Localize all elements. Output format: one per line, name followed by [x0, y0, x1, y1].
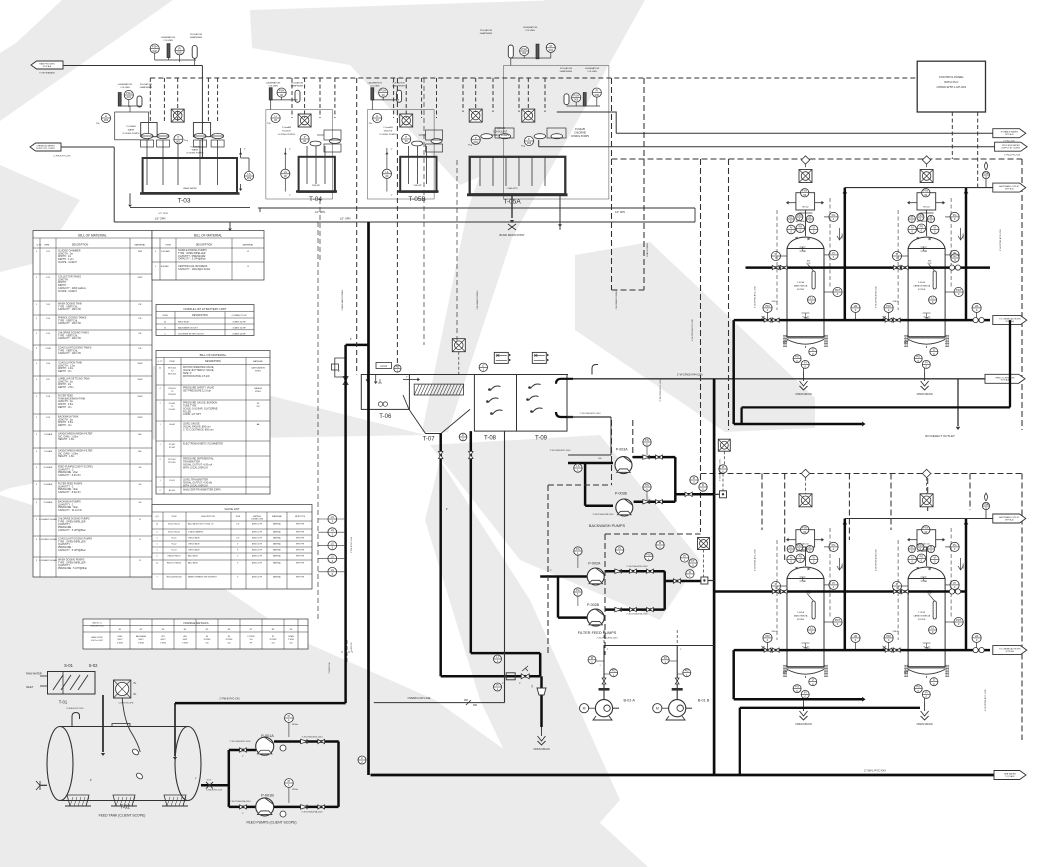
svg-text:MOTOR RATING 0.5 kW: MOTOR RATING 0.5 kW	[183, 375, 210, 378]
svg-text:T-08: T-08	[484, 435, 497, 441]
svg-text:20"WSS: 20"WSS	[226, 639, 234, 641]
svg-text:P-002A/B: P-002A/B	[44, 483, 53, 486]
svg-text:3/4": 3/4"	[532, 684, 534, 688]
support hatching T-011A	[783, 670, 788, 673]
svg-text:LS: LS	[247, 172, 250, 176]
svg-text:S-02: S-02	[89, 663, 99, 668]
svg-text:NOZZLE: NOZZLE	[384, 131, 393, 133]
agitator motor square T-04	[298, 114, 311, 127]
svg-text:WGV-008 WGV-008: WGV-008 WGV-008	[166, 577, 181, 579]
svg-text:MS: MS	[138, 451, 142, 453]
dashed sides T-011A	[776, 540, 778, 640]
svg-text:PG: PG	[795, 685, 799, 689]
svg-text:DOSING PUMPS: DOSING PUMPS	[571, 136, 589, 138]
svg-text:HS: HS	[975, 304, 979, 308]
svg-text:20"WSS: 20"WSS	[270, 639, 278, 641]
svg-text:PI: PI	[930, 545, 933, 549]
svg-text:RAW WATER: RAW WATER	[26, 672, 42, 676]
svg-text:MS: MS	[138, 434, 142, 436]
svg-text:2"-SW-E-PVC-XXX: 2"-SW-E-PVC-XXX	[206, 790, 223, 792]
svg-text:PDT: PDT	[835, 618, 841, 622]
svg-text:VI: VI	[933, 226, 936, 230]
svg-text:FEED PUMPS (CLIENT SCOPE): FEED PUMPS (CLIENT SCOPE)	[246, 821, 296, 825]
flag: to chlorine filter outlet (top)	[993, 316, 1027, 325]
svg-text:T-010A/B: T-010A/B	[44, 433, 53, 436]
svg-text:PG: PG	[576, 588, 580, 592]
valve pair far right top header	[949, 265, 954, 270]
diamond node above T-010B	[922, 156, 930, 164]
pipe: backwash return vertical	[732, 320, 735, 424]
svg-text:3": 3"	[550, 570, 552, 572]
svg-text:PI: PI	[809, 215, 812, 219]
vessel T-010A underdrain instruments	[809, 348, 817, 356]
svg-text:3"WSS: 3"WSS	[138, 642, 145, 644]
tank T-04 dip tubes	[306, 146, 308, 157]
drain arrow T-011A	[837, 558, 842, 570]
svg-text:LS: LS	[284, 170, 287, 174]
svg-text:MATERIAL: MATERIAL	[253, 360, 264, 363]
wire: 1/2 inch open drain header	[114, 221, 560, 223]
tank T-05B left nozzle	[382, 169, 391, 178]
svg-text:ANSI 150 RF: ANSI 150 RF	[252, 555, 262, 558]
svg-text:MV-02: MV-02	[802, 207, 809, 209]
svg-text:001: 001	[176, 139, 181, 143]
tank T-05B	[400, 157, 436, 192]
manifold side nozzles T-010B	[909, 202, 917, 204]
valve on T-06 inlet	[343, 377, 348, 385]
blower air header	[604, 645, 714, 647]
svg-text:1: 1	[156, 550, 157, 552]
dashed sides T-010A	[776, 210, 778, 310]
svg-text:150: 150	[250, 639, 253, 641]
svg-text:BV-01 to BV-05: BV-01 to BV-05	[168, 531, 180, 534]
svg-text:BALL VALVE: BALL VALVE	[188, 555, 199, 558]
svg-text:1": 1"	[289, 195, 291, 197]
pulsation dampener boxes T-05B	[426, 130, 443, 140]
pump P-003B	[616, 499, 633, 516]
svg-text:AT-001: AT-001	[169, 489, 175, 492]
svg-text:WSP: WSP	[138, 379, 144, 381]
svg-text:B-01A/B: B-01A/B	[161, 265, 169, 268]
pipe: T-07 drain run	[439, 434, 442, 677]
svg-text:2"-PW-E-PVC-XXX: 2"-PW-E-PVC-XXX	[219, 697, 240, 700]
svg-text:2"-W-CP000-B736-150U: 2"-W-CP000-B736-150U	[1000, 228, 1002, 250]
svg-text:COLUMN: COLUMN	[587, 71, 597, 73]
svg-text:2"-W-CP000-B731-150U: 2"-W-CP000-B731-150U	[230, 741, 251, 743]
vessel T-011B underdrain instruments	[930, 678, 938, 686]
svg-text:DEPTH : 2m: DEPTH : 2m	[58, 370, 71, 373]
svg-text:DRAIN: DRAIN	[962, 233, 965, 239]
svg-text:1: 1	[156, 538, 157, 540]
svg-text:PI: PI	[930, 215, 933, 219]
svg-text:LI: LI	[496, 655, 498, 659]
svg-text:SUPPLY BY CLIENT: SUPPLY BY CLIENT	[1001, 148, 1021, 150]
vessel T-010B dome instruments	[908, 215, 915, 223]
svg-text:ANALYZER TRANSMITTER (ORP): ANALYZER TRANSMITTER (ORP)	[183, 489, 221, 492]
table: nozzle list at battery limit	[156, 305, 254, 336]
svg-text:ZI: ZI	[722, 465, 725, 469]
svg-text:LS: LS	[331, 568, 334, 572]
svg-text:ELECTROMAGNETIC FLOWMETER: ELECTROMAGNETIC FLOWMETER	[183, 443, 223, 446]
svg-text:3"-W-CP000-B737-150U: 3"-W-CP000-B737-150U	[550, 450, 571, 452]
svg-text:HS: HS	[854, 304, 858, 308]
svg-text:COLUMN: COLUMN	[268, 86, 278, 88]
signal boundary: backwash/ff pump dashed area	[547, 485, 549, 655]
manifold to dome pipe T-010A	[805, 210, 807, 236]
svg-text:COLUMN: COLUMN	[525, 30, 535, 32]
svg-text:PSE: PSE	[983, 502, 988, 506]
svg-text:LS: LS	[331, 528, 334, 532]
wire: dosing drain header	[258, 207, 695, 209]
open drain below T-011B	[924, 698, 926, 702]
svg-text:2"-W-CP000-B731-150U: 2"-W-CP000-B731-150U	[755, 285, 757, 307]
level switch box	[114, 680, 131, 698]
support hatching T-011B	[904, 670, 909, 673]
svg-text:ITEM: ITEM	[165, 245, 170, 247]
svg-text:PSV: PSV	[802, 189, 807, 193]
svg-text:CAPACITY : 100 LTR: CAPACITY : 100 LTR	[58, 352, 81, 355]
pipe: main filter feed riser	[713, 379, 716, 775]
svg-text:OPEN DRAIN: OPEN DRAIN	[795, 722, 811, 726]
svg-text:CAPACITY : 100m3@0.3mbar: CAPACITY : 100m3@0.3mbar	[178, 268, 210, 271]
instrument boxes above T-08/T-09	[494, 352, 508, 363]
svg-text:HEIGHT : 1.8m: HEIGHT : 1.8m	[58, 455, 74, 458]
svg-text:005: 005	[527, 141, 532, 145]
diamond node above T-010A	[801, 156, 809, 164]
svg-text:2"-W-CP000-B73B-150U: 2"-W-CP000-B73B-150U	[876, 548, 878, 571]
svg-text:MV-02: MV-02	[923, 207, 930, 209]
flag: potable water	[993, 129, 1026, 138]
svg-text:VSB-02: VSB-02	[892, 301, 898, 303]
manifold side nozzles T-011A	[788, 539, 796, 541]
svg-text:PULSATION: PULSATION	[291, 82, 304, 85]
drain arrow T-011B	[958, 558, 963, 570]
pump boxes T-03	[141, 123, 157, 137]
instrument bubble T-05B level	[373, 113, 382, 122]
signal boundary: dashed verticals filter group	[700, 159, 702, 532]
svg-text:PG: PG	[953, 543, 957, 547]
svg-text:ANSI 150 RF: ANSI 150 RF	[252, 537, 262, 540]
svg-text:2"-W-CP000-B730-150U: 2"-W-CP000-B730-150U	[627, 566, 648, 568]
signal dashed drop to blowers	[603, 630, 605, 646]
motor operated valve MOV T-010B	[920, 170, 933, 183]
svg-text:CHECK VALVE: CHECK VALVE	[188, 543, 200, 546]
signal boundary near T-06	[643, 160, 645, 290]
svg-text:150: 150	[290, 642, 293, 644]
svg-text:AI: AI	[911, 226, 914, 230]
T-08 candle internals	[490, 386, 500, 391]
svg-text:MFR/TYPE: MFR/TYPE	[296, 544, 304, 546]
svg-text:PG-001: PG-001	[169, 403, 176, 405]
svg-text:B-01 B: B-01 B	[698, 698, 710, 702]
svg-text:2"-SW-L-PVC-XXX: 2"-SW-L-PVC-XXX	[864, 769, 886, 773]
motor squares above T-08	[452, 339, 465, 352]
instrument bubbles ff	[574, 547, 582, 555]
svg-text:CLIENT ON: CLIENT ON	[329, 662, 331, 673]
svg-text:PSV: PSV	[918, 213, 923, 217]
svg-text:Plug: Plug	[468, 145, 472, 147]
svg-text:SCOPE : CLIENT: SCOPE : CLIENT	[58, 261, 77, 264]
svg-text:PSH: PSH	[279, 89, 284, 93]
svg-text:MOV-001: MOV-001	[168, 368, 176, 370]
table: bill of material (left)	[33, 231, 152, 578]
svg-text:OPEN DRAIN: OPEN DRAIN	[917, 392, 933, 396]
valve manifold T-011A	[796, 530, 815, 547]
tank outlet nozzle left	[40, 784, 47, 786]
vessel T-010B internals	[933, 271, 936, 289]
tank T-03 right nozzle fittings	[244, 171, 253, 180]
tank T-03 dip tubes	[146, 140, 148, 158]
pipe: top group feed header	[746, 266, 991, 269]
svg-text:1": 1"	[391, 195, 393, 197]
junction box ff	[701, 577, 708, 584]
svg-text:LI: LI	[376, 114, 378, 118]
wire: vertical from header to T-06 area	[559, 222, 561, 230]
svg-text:NC-02: NC-02	[172, 544, 177, 546]
svg-text:TO PLANT: TO PLANT	[1005, 775, 1016, 778]
svg-text:CARBON MEDIA: CARBON MEDIA	[913, 285, 930, 288]
svg-text:AU-01: AU-01	[380, 365, 387, 368]
pipe: T-06 inlet crossover	[346, 344, 369, 347]
svg-text:PSH: PSH	[574, 94, 579, 98]
svg-text:PI: PI	[911, 215, 914, 219]
svg-text:LI: LI	[361, 756, 363, 760]
svg-text:NPSHa: NPSHa	[292, 789, 298, 791]
drain arrow T-010B	[958, 228, 963, 240]
svg-text:N4: N4	[206, 636, 208, 638]
svg-text:& VALVE (SAMPLE): & VALVE (SAMPLE)	[188, 531, 204, 534]
svg-text:ITEM: ITEM	[44, 245, 49, 247]
svg-text:CALIBRATION: CALIBRATION	[367, 82, 382, 85]
svg-text:150: 150	[206, 642, 209, 644]
pipe: backwash discharge B	[634, 500, 676, 503]
svg-text:FEED: FEED	[118, 636, 123, 638]
svg-text:4" ANSI 150 RF: 4" ANSI 150 RF	[232, 326, 246, 329]
svg-text:HV: HV	[953, 254, 957, 258]
control panel box	[917, 61, 985, 112]
svg-text:1/4": 1/4"	[236, 538, 239, 540]
svg-text:CALIBRATION: CALIBRATION	[523, 26, 538, 29]
svg-text:2"-W-CP000-B730-150U: 2"-W-CP000-B730-150U	[597, 638, 618, 640]
svg-text:STEEL: STEEL	[255, 371, 261, 373]
svg-text:LT: LT	[482, 363, 485, 367]
svg-text:SAND MEDIA: SAND MEDIA	[794, 615, 808, 618]
svg-text:PDI: PDI	[886, 304, 891, 308]
svg-text:P-015A/B: P-015A/B	[161, 250, 170, 253]
svg-text:PSV-003: PSV-003	[168, 394, 175, 396]
svg-text:8"-SW-E-PVC-XXX: 8"-SW-E-PVC-XXX	[66, 708, 84, 710]
instrument bubbles backwash	[643, 438, 651, 446]
strainer on drain	[537, 688, 546, 695]
svg-text:WTP A-B: WTP A-B	[1001, 379, 1010, 382]
svg-text:WASH: WASH	[128, 129, 135, 132]
pipe: drain line down the middle	[367, 222, 370, 775]
svg-text:DOSING PUMPS: DOSING PUMPS	[122, 133, 140, 135]
svg-text:ANSI 150 RF: ANSI 150 RF	[252, 549, 262, 552]
svg-text:14: 14	[156, 524, 158, 526]
svg-text:2"-W-CP000-B731-150U: 2"-W-CP000-B731-150U	[660, 379, 662, 401]
flag: sea water drain outlet	[994, 771, 1026, 780]
svg-text:WASH WATER: WASH WATER	[183, 187, 197, 190]
T-07 funnel	[409, 409, 470, 433]
blower B-01B	[669, 700, 686, 717]
signal drops T-05A	[462, 78, 464, 112]
pipe: backwash discharge A	[633, 456, 676, 459]
svg-text:PSV: PSV	[918, 543, 923, 547]
svg-text:HSB-08, HSB-10: HSB-08, HSB-10	[168, 556, 181, 558]
svg-text:BACKWASH: BACKWASH	[136, 635, 147, 638]
svg-text:PSV: PSV	[802, 526, 807, 530]
svg-text:WTP A-B: WTP A-B	[1005, 518, 1014, 521]
svg-text:N5: N5	[228, 636, 230, 638]
svg-text:AE: AE	[396, 365, 400, 369]
svg-text:DEPTH : 2.5m: DEPTH : 2.5m	[58, 386, 73, 389]
svg-text:CONN: 1/4" NPT: CONN: 1/4" NPT	[183, 413, 202, 416]
signal boundary: dashed enclosure left of filters	[611, 78, 613, 290]
svg-text:PI: PI	[496, 683, 499, 687]
wire: long vertical from T-03 drain to bottom	[229, 222, 231, 228]
svg-text:PG: PG	[916, 355, 920, 359]
vessel T-011B left instruments	[902, 585, 909, 587]
svg-text:LS: LS	[331, 555, 334, 559]
svg-text:CAPACITY : 5 LPH@8bar: CAPACITY : 5 LPH@8bar	[178, 258, 206, 261]
svg-text:003: 003	[104, 118, 109, 122]
pipe: strainer to tank drop	[102, 695, 104, 752]
svg-text:T-07: T-07	[423, 437, 436, 443]
vessel T-010A internals	[812, 271, 815, 289]
overflow line	[374, 702, 505, 704]
vessel T-010B underdrain instruments	[930, 348, 938, 356]
wire: chlorine line to right header	[557, 112, 616, 133]
svg-text:PG: PG	[685, 669, 689, 673]
svg-text:PI: PI	[789, 545, 792, 549]
svg-text:S-01: S-01	[64, 663, 74, 668]
svg-text:PG: PG	[832, 543, 836, 547]
psv vent symbol bottom	[985, 493, 988, 501]
svg-text:002: 002	[177, 51, 182, 55]
svg-text:1/2" OPN: 1/2" OPN	[615, 211, 625, 214]
svg-text:Q.TY: Q.TY	[158, 361, 163, 363]
pipe: client battery top line	[175, 702, 346, 705]
svg-text:ZI: ZI	[659, 541, 662, 545]
tank T-04 left nozzle	[281, 169, 290, 178]
svg-text:Plug: Plug	[521, 146, 525, 148]
wash dosing pumps block	[115, 112, 149, 140]
svg-text:3"-W-CP000-B740-150U: 3"-W-CP000-B740-150U	[720, 458, 722, 480]
manifold to dome pipe T-010B	[926, 210, 928, 236]
signal drop to MOV T-011A	[805, 478, 807, 494]
coagulant dosing pumps	[471, 135, 480, 144]
manifold side nozzles T-011B	[909, 539, 917, 541]
level instrument chain beside feed riser	[318, 518, 346, 520]
svg-text:CONNECTION: CONNECTION	[232, 315, 247, 317]
svg-text:N2: N2	[924, 251, 926, 253]
svg-text:PSH: PSH	[522, 47, 527, 51]
svg-text:FT-002: FT-002	[169, 447, 175, 449]
svg-text:PULSATION: PULSATION	[392, 82, 405, 85]
svg-text:T-06: T-06	[379, 414, 392, 420]
svg-text:T-05B: T-05B	[408, 196, 425, 203]
vessel T-010A left instruments	[781, 255, 788, 257]
svg-text:ITEM: ITEM	[162, 315, 167, 317]
svg-text:002: 002	[153, 49, 158, 53]
svg-text:AI: AI	[790, 226, 793, 230]
bubble on T-08 drain	[494, 655, 502, 663]
table: bill of material (valves and instruments)	[156, 351, 270, 495]
svg-text:COLUMN: COLUMN	[120, 87, 130, 89]
svg-text:INLET: INLET	[26, 685, 34, 689]
svg-text:1/2"WSS: 1/2"WSS	[247, 636, 255, 638]
svg-text:2"-W-CP000-B730-150U: 2"-W-CP000-B730-150U	[302, 737, 323, 739]
pipe: backwash suction	[568, 462, 613, 465]
unit boundary T-05B	[368, 110, 435, 199]
svg-text:FEED TANK (CLIENT SCOPE): FEED TANK (CLIENT SCOPE)	[99, 814, 146, 818]
svg-text:3"-W-CP000-B73B-150U: 3"-W-CP000-B73B-150U	[593, 514, 615, 516]
svg-text:COLUMN: COLUMN	[370, 86, 380, 88]
svg-text:DRAIN: DRAIN	[288, 635, 294, 638]
svg-text:HS: HS	[975, 634, 979, 638]
svg-text:GRP: GRP	[138, 277, 143, 279]
pump P-002A	[587, 568, 604, 585]
svg-text:PI: PI	[618, 546, 621, 550]
svg-text:DRAIN: DRAIN	[962, 563, 965, 569]
svg-text:FILTER FEED PUMPS: FILTER FEED PUMPS	[578, 631, 617, 635]
svg-text:LI: LI	[105, 114, 107, 118]
open drain below T-010B	[924, 368, 926, 372]
svg-text:600: 600	[598, 458, 601, 460]
pump P-001A	[256, 737, 274, 755]
svg-text:GUIDE ON: GUIDE ON	[351, 642, 353, 652]
svg-text:OPEN DRAIN: OPEN DRAIN	[533, 747, 549, 751]
wire: drop to tank T-03	[201, 66, 203, 159]
svg-text:SAND FILTER: SAND FILTER	[91, 636, 103, 639]
svg-text:OPEN DRAIN: OPEN DRAIN	[795, 392, 811, 396]
gooseneck at T-09 top	[592, 365, 598, 375]
svg-text:ANSI 150 RF: ANSI 150 RF	[252, 576, 262, 579]
pipe: open drain drop center	[540, 676, 543, 727]
svg-text:PI: PI	[288, 779, 291, 783]
svg-text:AI: AI	[790, 556, 793, 560]
vessel T-011B dome and shell	[907, 574, 909, 576]
flag: feed to reserve	[985, 374, 1025, 383]
flag: backwash outlet	[993, 183, 1026, 192]
svg-text:P-0xxA/B: P-0xxA/B	[282, 126, 292, 129]
tank T-09	[517, 375, 568, 432]
svg-text:LI: LI	[933, 348, 935, 352]
svg-text:ANSI 150 RF: ANSI 150 RF	[252, 543, 262, 546]
pipe: bottom group lower header	[734, 649, 990, 652]
svg-text:5: 5	[156, 532, 157, 534]
svg-text:FI: FI	[702, 483, 705, 487]
svg-text:3"WSS: 3"WSS	[117, 642, 124, 644]
svg-text:2": 2"	[338, 370, 340, 373]
svg-text:DESCRIPTION: DESCRIPTION	[72, 244, 89, 247]
svg-text:MATERIAL: MATERIAL	[243, 244, 255, 247]
svg-text:T-09: T-09	[535, 435, 548, 441]
pipe: bottom open drain header	[740, 707, 920, 709]
svg-text:20"WSS: 20"WSS	[204, 639, 212, 641]
wire: potable water line	[616, 132, 993, 134]
tank T-05A	[470, 157, 566, 195]
svg-text:P-007A/B P-007A/B: P-007A/B P-007A/B	[39, 538, 57, 541]
svg-text:PG: PG	[832, 213, 836, 217]
svg-text:MFR/TYPE: MFR/TYPE	[296, 532, 304, 534]
tank T-03	[143, 158, 237, 193]
pipe: feed riser to coagulation tank	[344, 345, 347, 703]
svg-text:004: 004	[549, 48, 554, 52]
svg-text:DESCRIPTION: DESCRIPTION	[192, 315, 208, 317]
svg-text:LI: LI	[933, 678, 935, 682]
